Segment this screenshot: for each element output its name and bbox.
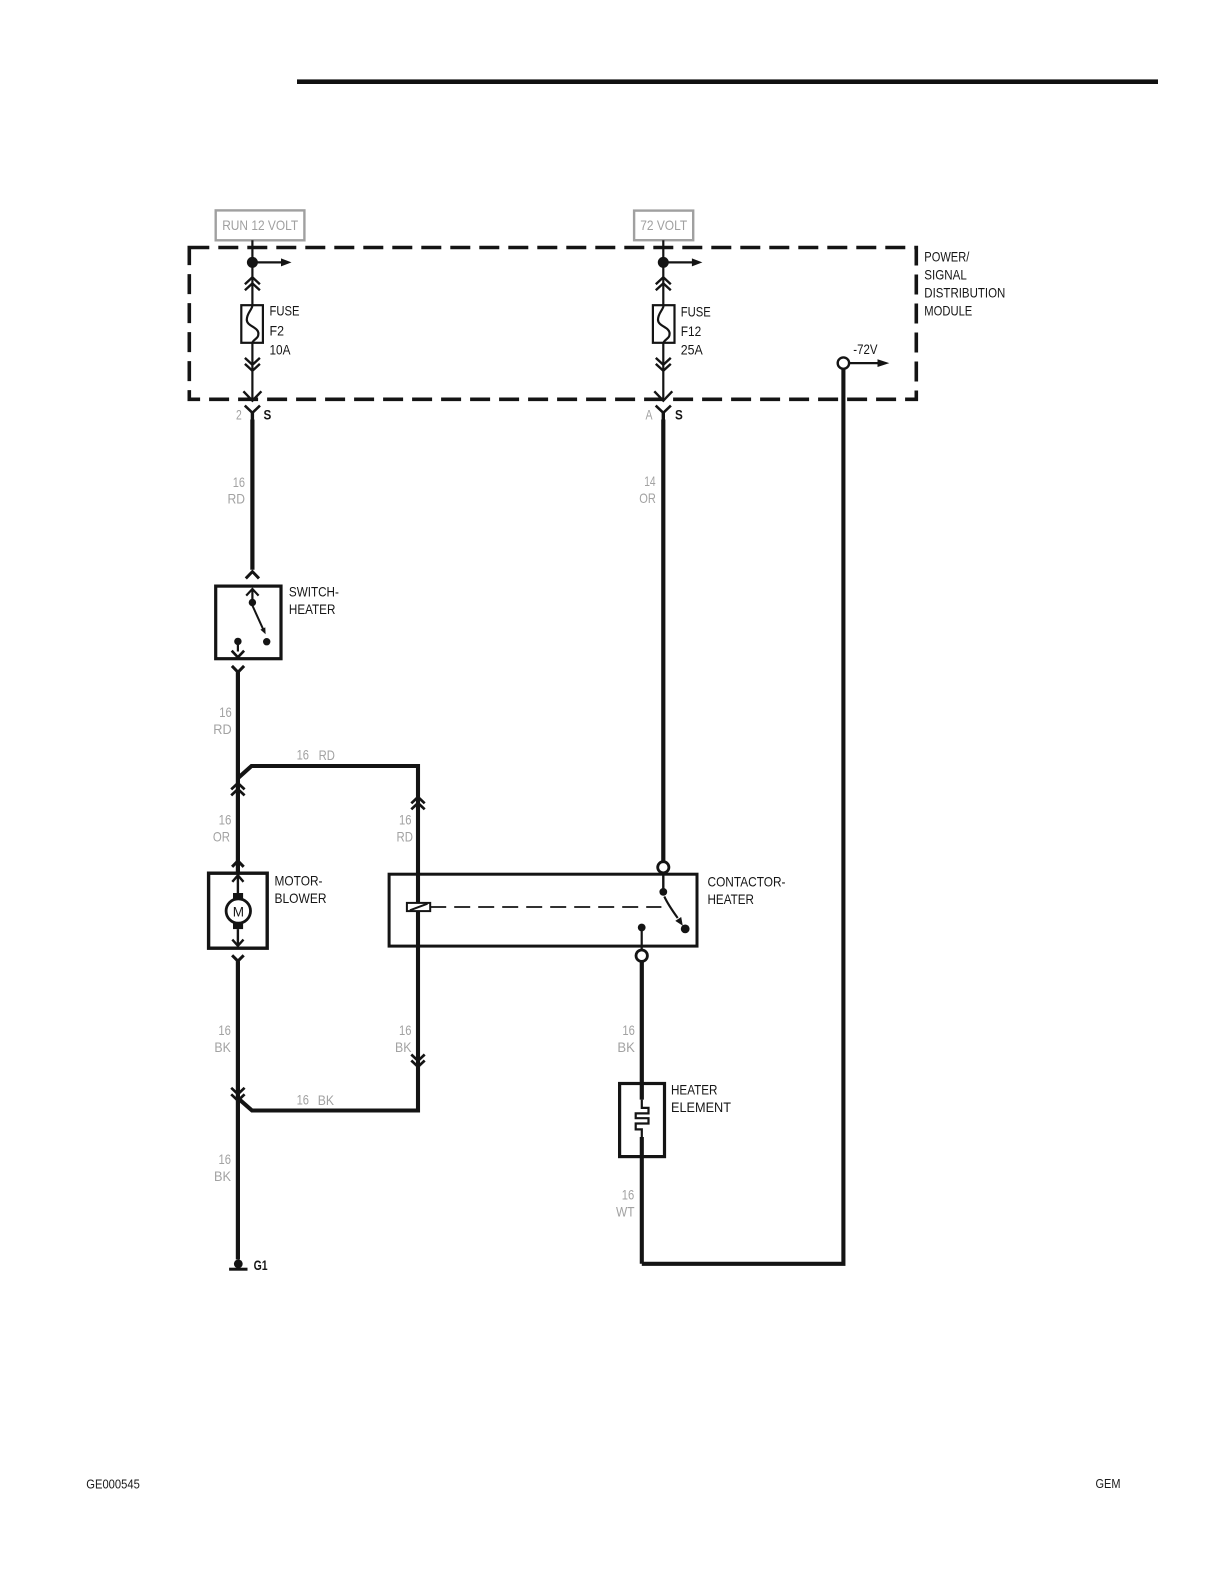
flow chevrons down on left wire [231, 1088, 244, 1101]
svg-text:A: A [646, 406, 653, 422]
branch arrow at RUN junction [252, 258, 291, 266]
svg-text:OR: OR [213, 829, 230, 845]
svg-text:RD: RD [213, 721, 231, 737]
contactor terminal circle bottom [636, 950, 647, 961]
junction dot 72V feed [658, 257, 669, 268]
svg-text:OR: OR [639, 490, 656, 506]
svg-text:RD: RD [319, 747, 335, 763]
svg-text:-72V: -72V [853, 342, 878, 357]
label 16 BK branch wire [395, 1022, 412, 1055]
svg-text:WT: WT [616, 1204, 635, 1220]
label 16 OR [213, 811, 232, 844]
contactor terminal circle top [658, 862, 669, 873]
branch arrow at 72V junction [663, 258, 702, 266]
node RUN 12 VOLT [216, 210, 305, 240]
svg-text:25A: 25A [681, 343, 704, 358]
fuse F2 10A [241, 304, 299, 358]
svg-text:RD: RD [228, 491, 246, 507]
svg-text:BK: BK [395, 1039, 412, 1055]
contactor contact dot output [638, 924, 646, 932]
svg-text:MODULE: MODULE [924, 304, 972, 319]
label 16 RD on branch [297, 746, 335, 763]
label 16 BK heater wire [617, 1022, 635, 1055]
label 16 BK lower left [214, 1151, 232, 1184]
contactor common dot [659, 888, 667, 896]
flow chevrons up above fuse F12 [656, 277, 671, 290]
svg-text:16: 16 [297, 1091, 310, 1107]
wire fuse F2 to module edge [251, 343, 253, 398]
contactor CONTACTOR-HEATER [389, 874, 785, 946]
connector chevron below switch [232, 666, 244, 672]
svg-text:DISTRIBUTION: DISTRIBUTION [924, 286, 1005, 301]
svg-text:2: 2 [236, 406, 242, 422]
label 16 RD upper [228, 474, 246, 507]
contactor linkage dashed line [430, 906, 661, 908]
flow chevrons up on branch wire [411, 797, 424, 809]
wire 16 RD / 16 OR switch to motor [236, 672, 240, 873]
contactor common lead [662, 873, 664, 892]
svg-text:HEATER: HEATER [289, 602, 336, 617]
svg-text:ELEMENT: ELEMENT [671, 1100, 732, 1115]
svg-text:S: S [264, 408, 272, 423]
wire 16 BK contactor to heater element [640, 961, 644, 1099]
module POWER/SIGNAL DISTRIBUTION MODULE dashed box [189, 248, 1005, 400]
svg-text:G1: G1 [254, 1258, 268, 1273]
connector chevron above motor [232, 861, 244, 867]
switch SWITCH-HEATER [216, 584, 339, 658]
wire 16 RD from connector to switch [250, 420, 254, 570]
svg-text:RD: RD [397, 829, 414, 845]
contactor coil [407, 903, 430, 911]
svg-text:14: 14 [644, 473, 656, 489]
svg-text:16: 16 [218, 1022, 231, 1038]
svg-text:BK: BK [617, 1039, 635, 1055]
contactor output lead [641, 931, 643, 950]
contactor moving contact arm [664, 897, 683, 926]
svg-text:S: S [675, 408, 683, 423]
label 16 RD below switch [213, 704, 232, 737]
svg-text:16: 16 [233, 474, 245, 490]
svg-text:BK: BK [214, 1168, 232, 1184]
wire 72V feed inside module [662, 240, 664, 305]
connector chevron below motor [232, 955, 244, 961]
label 16 BK on branch horizontal [297, 1091, 335, 1108]
fuse F12 25A [653, 305, 711, 358]
svg-text:SWITCH-: SWITCH- [289, 584, 339, 599]
flow chevrons down below fuse F2 [245, 358, 260, 371]
heater element symbol [636, 1100, 649, 1138]
node 72 VOLT [634, 211, 693, 241]
flow chevrons down below fuse F12 [656, 358, 671, 371]
svg-text:16: 16 [219, 811, 232, 827]
wire 16 WT heater element to -72V return [640, 1137, 644, 1264]
label 16 WT [616, 1187, 635, 1220]
svg-text:POWER/: POWER/ [924, 250, 969, 265]
svg-text:BLOWER: BLOWER [275, 891, 327, 906]
svg-text:BK: BK [214, 1039, 231, 1055]
connector socket left [245, 406, 260, 421]
label 14 OR [639, 473, 656, 506]
svg-text:F2: F2 [270, 323, 285, 338]
svg-text:SIGNAL: SIGNAL [924, 268, 967, 283]
label 16 RD on branch vertical [397, 811, 414, 844]
svg-text:CONTACTOR-: CONTACTOR- [708, 874, 786, 889]
connector chevron above switch [246, 572, 259, 579]
wire 16 RD branch to contactor coil (splice to bend) [238, 766, 419, 1111]
svg-text:16: 16 [399, 811, 412, 827]
svg-text:HEATER: HEATER [671, 1082, 718, 1097]
flow chevrons up above fuse F2 [245, 277, 260, 290]
open arrow at module edge right [654, 391, 672, 400]
svg-text:F12: F12 [681, 324, 702, 339]
svg-text:HEATER: HEATER [708, 892, 755, 907]
connector socket right [656, 406, 671, 421]
svg-text:FUSE: FUSE [681, 305, 711, 320]
svg-text:GE000545: GE000545 [86, 1478, 140, 1492]
flow chevrons down on branch wire [411, 1055, 424, 1067]
wire 16 BK motor to ground [236, 961, 240, 1259]
flow chevrons up on wire below splice [231, 783, 244, 795]
wire RUN 12 VOLT feed inside module [251, 240, 253, 305]
wire fuse F12 to module edge [662, 343, 664, 398]
svg-text:RUN 12 VOLT: RUN 12 VOLT [222, 218, 298, 233]
svg-text:M: M [233, 904, 244, 919]
junction dot RUN feed [247, 257, 258, 268]
terminal -72V [838, 342, 890, 369]
wire 14 OR connector to contactor [661, 420, 665, 862]
svg-text:16: 16 [219, 1151, 232, 1167]
svg-text:72 VOLT: 72 VOLT [640, 218, 687, 233]
heater element box [620, 1082, 732, 1156]
svg-text:10A: 10A [270, 342, 292, 357]
svg-text:16: 16 [399, 1022, 412, 1038]
svg-text:MOTOR-: MOTOR- [275, 873, 323, 888]
open arrow at module edge left [243, 391, 261, 400]
svg-text:GEM: GEM [1096, 1477, 1121, 1491]
contactor contact dot right [681, 925, 690, 934]
label 16 BK left wire [214, 1022, 231, 1055]
svg-text:BK: BK [318, 1092, 335, 1108]
motor MOTOR-BLOWER [209, 873, 327, 948]
svg-text:16: 16 [622, 1187, 635, 1203]
svg-text:FUSE: FUSE [270, 304, 300, 319]
svg-text:16: 16 [219, 704, 232, 720]
wire -72V return path [642, 369, 844, 1264]
ground G1 [229, 1258, 268, 1273]
svg-text:16: 16 [622, 1022, 635, 1038]
svg-text:16: 16 [297, 746, 310, 762]
